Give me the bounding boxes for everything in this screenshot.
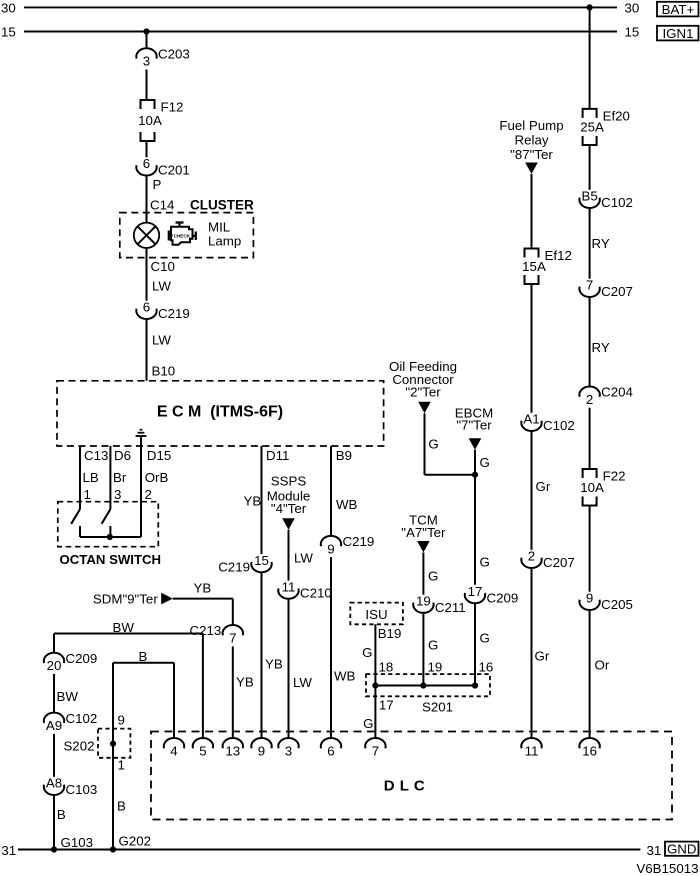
svg-text:11: 11 [525, 743, 539, 758]
svg-text:17: 17 [379, 697, 394, 712]
check engine icon (MIL) [169, 223, 196, 245]
svg-text:B10: B10 [152, 364, 176, 379]
DLC pin 7 [365, 738, 385, 758]
connector C219 pin 15 [218, 553, 271, 574]
wire C102-A9 to C103 (B) [53, 734, 55, 777]
cluster dashed box [120, 213, 254, 258]
svg-text:B5: B5 [581, 189, 597, 204]
wire BW to DLC pin 5 [202, 634, 204, 739]
junction splice S202 [110, 741, 116, 747]
wire BW down to C209 [53, 634, 55, 653]
svg-text:C103: C103 [66, 782, 98, 797]
svg-text:6: 6 [327, 743, 334, 758]
svg-text:15: 15 [254, 553, 269, 568]
svg-text:G: G [428, 569, 438, 584]
svg-text:30: 30 [1, 1, 16, 16]
svg-text:C102: C102 [543, 418, 575, 433]
wire C204 to fuse F22 [589, 408, 591, 469]
switch blade 1 [71, 509, 80, 524]
svg-text:10A: 10A [138, 113, 162, 128]
power terminal BAT+ box [657, 2, 699, 17]
svg-text:C10: C10 [151, 259, 175, 274]
wire corner down to C213 [232, 599, 234, 625]
svg-text:D6: D6 [114, 448, 131, 463]
svg-text:6: 6 [143, 156, 150, 171]
svg-text:11: 11 [282, 579, 296, 594]
connector C211 pin 19 [413, 594, 466, 615]
svg-text:19: 19 [416, 594, 431, 609]
svg-text:7: 7 [586, 278, 593, 293]
svg-text:31: 31 [1, 843, 16, 858]
wire D6 (Br) [109, 446, 111, 509]
wire C209-17 to S201 (G) [474, 603, 476, 685]
svg-text:C219: C219 [218, 559, 250, 574]
svg-text:15A: 15A [522, 259, 546, 274]
svg-text:Br: Br [113, 470, 127, 485]
ISU dashed box [350, 603, 403, 625]
DLC pin 4 [164, 738, 184, 758]
svg-text:Lamp: Lamp [208, 233, 241, 248]
internal ground symbol (ECM) [136, 430, 147, 436]
svg-text:OCTAN SWITCH: OCTAN SWITCH [60, 552, 162, 567]
svg-text:C209: C209 [487, 590, 519, 605]
fuse Ef12 15A [522, 248, 572, 284]
wire bus 15 (IGN1) [24, 31, 617, 33]
junction EBCM/oil feeding [472, 472, 478, 478]
wire D15 (OrB) ground to octan switch [140, 436, 142, 537]
connector C219 pin 9 [321, 534, 374, 556]
svg-text:4: 4 [170, 743, 177, 758]
wire F22 to C205 [589, 506, 591, 592]
junction on bus 15 [143, 28, 149, 34]
wire C209-20 to C102 (BW) [53, 674, 55, 713]
junction G103 [51, 846, 57, 852]
svg-text:YB: YB [265, 657, 283, 672]
wire EBCM down (G) [474, 450, 476, 585]
svg-text:G: G [428, 437, 438, 452]
svg-text:7: 7 [372, 743, 379, 758]
wire lamp to C219 [146, 248, 148, 301]
connector C219 pin 6 [136, 300, 189, 321]
connector C207 pin 2 [521, 549, 574, 570]
svg-text:10A: 10A [580, 480, 604, 495]
wire C103 to ground bus (B) [53, 795, 55, 850]
wire B9 (WB) upper [330, 446, 332, 536]
svg-text:SDM"9"Ter: SDM"9"Ter [93, 592, 158, 607]
svg-text:17: 17 [468, 584, 483, 599]
svg-text:"7"Ter: "7"Ter [456, 418, 492, 433]
svg-text:C102: C102 [66, 711, 98, 726]
SSPS module terminal triangle [282, 518, 295, 530]
svg-text:A8: A8 [46, 776, 62, 791]
svg-text:C213: C213 [190, 623, 222, 638]
svg-text:LW: LW [293, 675, 312, 690]
svg-text:S202: S202 [63, 739, 94, 754]
svg-text:G: G [480, 631, 490, 646]
ECM dashed box [57, 381, 384, 446]
wire D11 (YB) upper [261, 446, 263, 554]
svg-text:Gr: Gr [536, 479, 551, 494]
wire B5 to C207 (RY) [589, 208, 591, 279]
EBCM terminal triangle [469, 438, 482, 450]
svg-text:OrB: OrB [145, 470, 169, 485]
wire B to DLC pin 4 [173, 663, 175, 738]
junction S201 left [372, 682, 378, 688]
switch blade 2 [102, 509, 111, 524]
svg-text:A1: A1 [523, 412, 539, 427]
svg-text:C207: C207 [601, 284, 633, 299]
wire C219-15 to DLC pin 9 (YB) [261, 572, 263, 738]
svg-text:2: 2 [528, 549, 535, 564]
svg-text:C211: C211 [435, 600, 466, 615]
svg-text:Ef20: Ef20 [603, 109, 630, 124]
wire C205 to DLC pin 16 (Or) [589, 610, 591, 738]
fuse F22 10A [580, 469, 625, 506]
svg-text:20: 20 [47, 658, 62, 673]
connector C205 pin 9 [579, 591, 632, 612]
svg-text:Or: Or [595, 658, 610, 673]
svg-text:18: 18 [379, 659, 394, 674]
svg-text:2: 2 [145, 487, 152, 502]
wire F12 to C201 [146, 141, 148, 157]
svg-text:"A7"Ter: "A7"Ter [401, 525, 446, 540]
svg-text:Gr: Gr [535, 649, 550, 664]
svg-text:ISU: ISU [365, 607, 387, 622]
connector C207 pin 7 [579, 278, 632, 299]
wire BW horizontal [54, 633, 203, 635]
svg-text:WB: WB [336, 497, 358, 512]
svg-text:3: 3 [285, 743, 292, 758]
svg-text:LW: LW [294, 551, 313, 566]
svg-text:1: 1 [84, 487, 91, 502]
svg-text:16: 16 [479, 659, 494, 674]
TCM terminal triangle [417, 541, 430, 553]
octan switch dashed box [58, 502, 159, 547]
DLC pin 6 [321, 738, 341, 758]
connector C210 pin 11 [278, 579, 331, 600]
wire TCM to C211 (G) [422, 553, 424, 595]
MIL lamp bulb [134, 223, 159, 248]
svg-text:D L C: D L C [384, 778, 425, 795]
svg-text:MIL: MIL [208, 220, 230, 235]
svg-text:16: 16 [582, 743, 597, 758]
svg-text:25A: 25A [580, 120, 604, 135]
svg-text:7: 7 [229, 630, 236, 645]
svg-text:9: 9 [327, 541, 334, 556]
DLC pin 16 [579, 738, 599, 758]
wire C219-9 to DLC pin 6 (WB) [330, 557, 332, 738]
svg-text:IGN1: IGN1 [662, 26, 693, 41]
ground terminal GND box [665, 841, 699, 856]
svg-text:F22: F22 [603, 469, 626, 484]
svg-text:YB: YB [244, 494, 262, 509]
connector C102 pin A1 [521, 412, 574, 433]
svg-text:"4"Ter: "4"Ter [271, 501, 307, 516]
svg-text:SSPS: SSPS [271, 474, 307, 489]
svg-text:CHECK: CHECK [174, 234, 191, 239]
svg-text:RY: RY [592, 236, 610, 251]
wire oil feeding horizontal [425, 474, 476, 476]
wire bus15 to C203 [146, 32, 148, 49]
svg-text:D11: D11 [266, 448, 289, 463]
svg-text:B: B [117, 799, 126, 814]
svg-text:C209: C209 [66, 651, 98, 666]
junction on bus 30 [587, 4, 593, 10]
switch contact stub 1 [79, 526, 81, 537]
connector C103 pin A8 [44, 776, 97, 797]
svg-text:B: B [139, 649, 148, 664]
junction S201 right [472, 682, 478, 688]
SDM terminal triangle [161, 593, 173, 605]
svg-text:LB: LB [83, 470, 99, 485]
connector C209 pin 17 [465, 584, 518, 605]
svg-text:C219: C219 [158, 306, 190, 321]
svg-text:LW: LW [152, 333, 171, 348]
junction G202 [110, 846, 116, 852]
wire bus30 down to fuse Ef20 [589, 7, 591, 109]
wire Ef20 to C102-B5 [589, 145, 591, 190]
wire oil feeding down (G) [424, 413, 426, 474]
fuel pump relay terminal triangle [525, 163, 538, 175]
svg-text:C205: C205 [601, 597, 633, 612]
wire C207-7 to C204 (RY) [589, 297, 591, 387]
svg-text:"87"Ter: "87"Ter [510, 147, 553, 162]
power terminal IGN1 box [657, 26, 699, 41]
svg-text:BW: BW [113, 620, 135, 635]
connector C204 pin 2 [579, 385, 632, 407]
connector C209 pin 20 [44, 651, 97, 673]
svg-text:C102: C102 [601, 195, 633, 210]
svg-text:RY: RY [592, 340, 610, 355]
connector C213 pin 7 [190, 623, 243, 645]
svg-text:9: 9 [586, 591, 593, 606]
svg-text:G103: G103 [61, 835, 94, 850]
svg-text:31: 31 [647, 843, 662, 858]
svg-text:1: 1 [118, 758, 125, 773]
svg-text:G: G [363, 716, 373, 731]
junction octan common [107, 534, 113, 540]
wire C207-2 to DLC pin 11 (Gr) [531, 568, 533, 738]
switch contact stub 2 [109, 526, 111, 537]
svg-text:19: 19 [428, 659, 443, 674]
DLC pin 11 [521, 738, 541, 758]
svg-text:5: 5 [199, 743, 206, 758]
wire C201 to cluster (P) [146, 176, 148, 223]
wire C13 (LB) [79, 446, 81, 509]
svg-text:3: 3 [114, 487, 121, 502]
connector C102 pin B5 [579, 189, 632, 210]
svg-text:S201: S201 [422, 700, 453, 715]
svg-text:B9: B9 [336, 448, 352, 463]
wire bus 30 (BAT+) [24, 6, 617, 8]
svg-text:GND: GND [667, 841, 697, 856]
svg-text:9: 9 [118, 713, 125, 728]
svg-text:D15: D15 [147, 448, 171, 463]
splice S201 dashed box [366, 674, 490, 696]
splice S202 dashed box [98, 729, 130, 758]
svg-text:G: G [428, 638, 438, 653]
svg-text:C219: C219 [343, 534, 375, 549]
svg-text:WB: WB [334, 669, 356, 684]
svg-text:13: 13 [225, 743, 240, 758]
wire S201 common [375, 685, 475, 687]
wire C203 to fuse F12 [146, 70, 148, 101]
wire Ef12 to C102-A1 [531, 284, 533, 413]
svg-text:P: P [153, 177, 162, 192]
svg-text:B19: B19 [378, 626, 402, 641]
svg-text:C203: C203 [158, 47, 190, 62]
svg-text:Relay: Relay [515, 133, 549, 148]
oil feeding connector triangle [418, 402, 431, 414]
DLC pin 3 [278, 738, 298, 758]
junction S201 middle [420, 682, 426, 688]
DLC pin 13 [223, 738, 243, 758]
svg-text:9: 9 [258, 743, 265, 758]
svg-text:3: 3 [143, 54, 150, 69]
DLC pin 5 [193, 738, 213, 758]
svg-text:30: 30 [625, 1, 640, 16]
svg-text:CLUSTER: CLUSTER [190, 198, 254, 213]
wire C213 to DLC pin 13 (YB) [232, 646, 234, 738]
svg-text:E C M (ITMS-6F): E C M (ITMS-6F) [157, 404, 283, 421]
wire B horizontal [113, 662, 174, 664]
svg-text:YB: YB [236, 675, 254, 690]
wire A1 to C207 (Gr) [531, 431, 533, 550]
svg-text:LW: LW [152, 279, 171, 294]
fuse F12 10A [138, 100, 183, 141]
svg-text:YB: YB [194, 580, 212, 595]
DLC dashed box [151, 732, 672, 820]
svg-text:C204: C204 [601, 385, 633, 400]
wire C219 to ECM (LW) [146, 319, 148, 381]
svg-text:G202: G202 [119, 833, 152, 848]
svg-text:G: G [480, 455, 490, 470]
svg-text:B: B [57, 807, 66, 822]
svg-text:C13: C13 [84, 448, 108, 463]
svg-text:15: 15 [1, 25, 16, 40]
svg-text:Fuel Pump: Fuel Pump [499, 118, 563, 133]
svg-text:15: 15 [625, 25, 640, 40]
svg-text:F12: F12 [161, 100, 184, 115]
svg-text:C210: C210 [300, 586, 332, 601]
svg-text:"2"Ter: "2"Ter [405, 385, 441, 400]
svg-text:G: G [480, 555, 490, 570]
wire C210 to DLC pin 3 (LW) [288, 599, 290, 738]
fuse Ef20 25A [580, 109, 630, 145]
wire bus 31 (GND) [18, 849, 640, 851]
svg-text:C14: C14 [150, 198, 174, 213]
wire SSPS to C210 (LW) [288, 530, 290, 581]
connector C201 pin 6 [136, 156, 189, 177]
svg-text:A9: A9 [46, 718, 62, 733]
svg-text:C201: C201 [158, 163, 190, 178]
connector C102 pin A9 [44, 711, 97, 733]
connector C203 pin 3 [136, 47, 189, 69]
svg-text:C207: C207 [543, 555, 575, 570]
wire SDM to corner (YB) [173, 598, 233, 600]
svg-text:6: 6 [143, 300, 150, 315]
svg-text:2: 2 [586, 392, 593, 407]
svg-text:BW: BW [57, 689, 79, 704]
DLC pin 9 [251, 738, 271, 758]
svg-text:G: G [362, 645, 372, 660]
wire B down through S202 to G202 [112, 663, 114, 850]
svg-text:Ef12: Ef12 [545, 248, 572, 263]
wire C211 to S201 (G) [422, 613, 424, 686]
svg-text:V6B15013: V6B15013 [636, 861, 698, 876]
wire relay to fuse Ef12 [531, 174, 533, 249]
svg-text:BAT+: BAT+ [662, 2, 695, 17]
wire octan switch common [80, 536, 141, 538]
wire ISU B19 to DLC pin 7 (G) [374, 624, 376, 738]
